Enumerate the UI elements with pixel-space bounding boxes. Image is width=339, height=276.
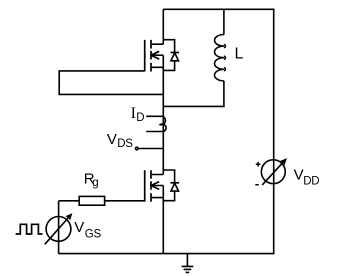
svg-text:L: L	[235, 46, 244, 63]
svg-text:V: V	[294, 167, 304, 184]
svg-text:I: I	[131, 105, 136, 122]
svg-text:g: g	[92, 177, 98, 189]
svg-text:D: D	[136, 112, 144, 124]
svg-text:V: V	[107, 131, 117, 148]
svg-text:GS: GS	[85, 228, 102, 240]
svg-text:DD: DD	[303, 175, 319, 187]
svg-text:DS: DS	[117, 138, 133, 150]
svg-text:V: V	[74, 219, 84, 236]
